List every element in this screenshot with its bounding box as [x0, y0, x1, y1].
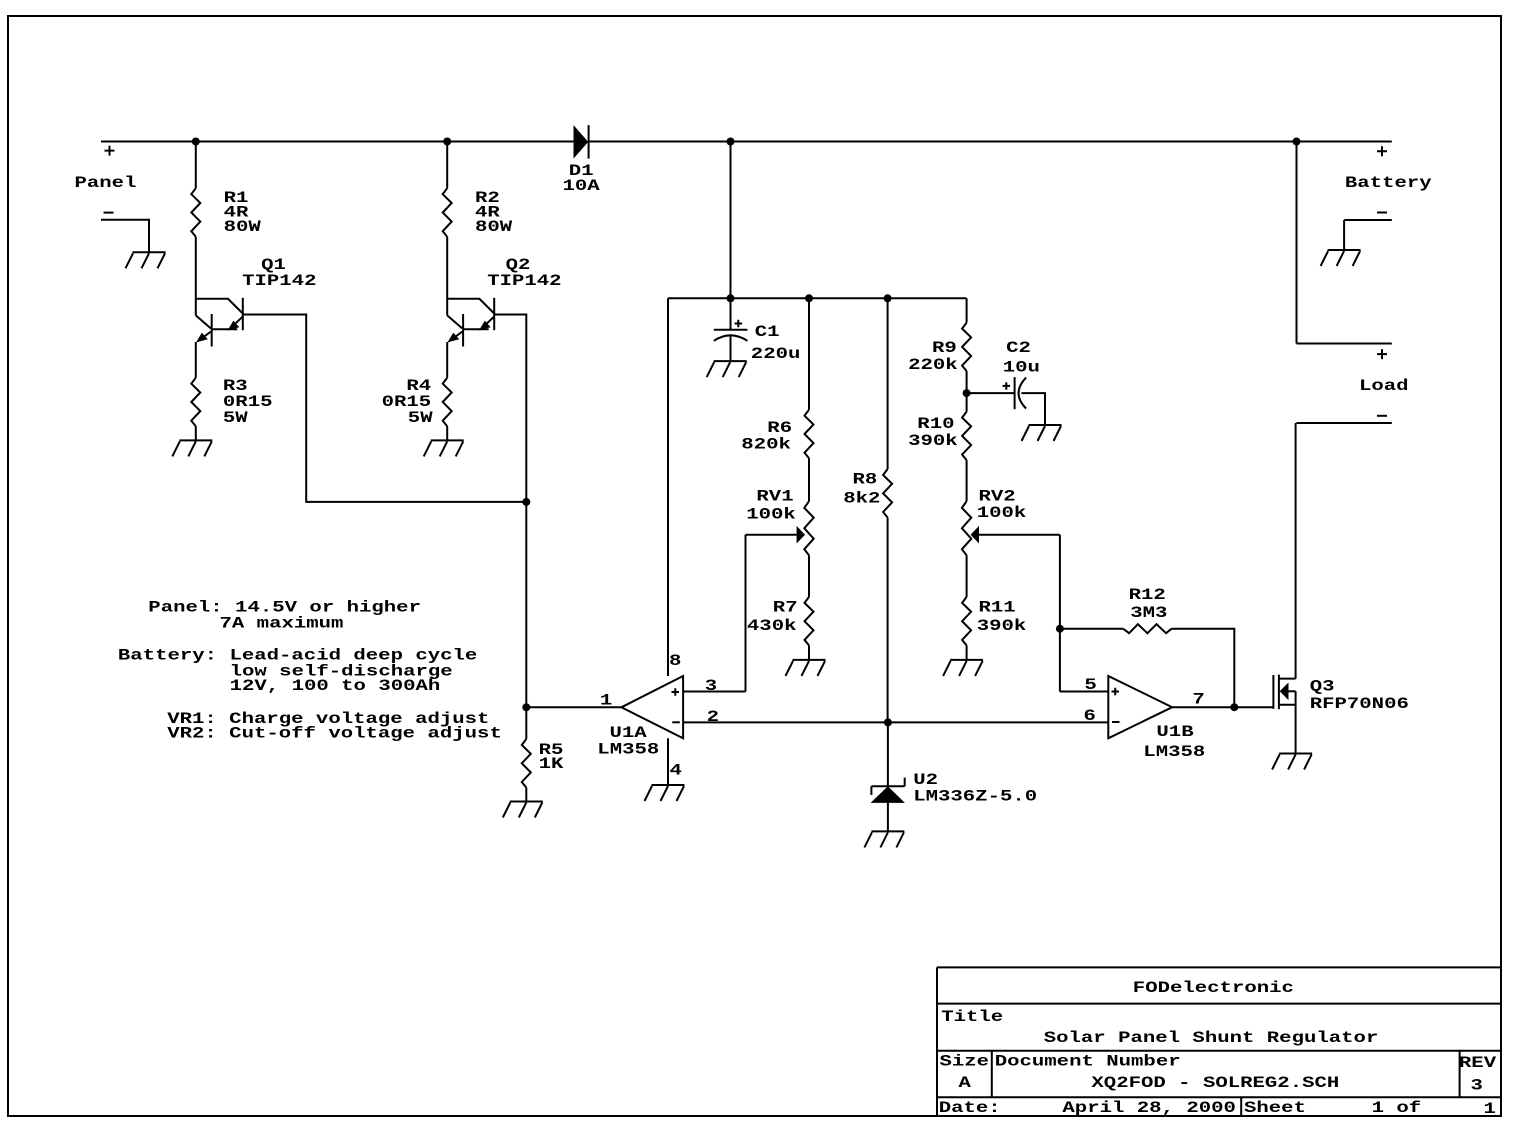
svg-text:100k: 100k: [746, 505, 796, 523]
transistor Q1 TIP142: [196, 237, 317, 347]
wire inverting input line pin2 to pin6: [683, 721, 1108, 723]
svg-text:3M3: 3M3: [1130, 604, 1167, 622]
node junction dot rail/C1: [727, 294, 735, 302]
svg-text:220k: 220k: [908, 356, 958, 374]
svg-text:4: 4: [670, 762, 682, 780]
svg-text:8: 8: [669, 652, 681, 670]
svg-text:LM358: LM358: [597, 741, 659, 759]
node Panel + terminal label: [75, 146, 137, 213]
svg-text:April 28, 2000: April 28, 2000: [1062, 1099, 1236, 1117]
mosfet Q3 RFP70N06: [1273, 675, 1408, 754]
svg-text:R10: R10: [917, 415, 954, 433]
wire U1A output pin 1: [526, 706, 621, 708]
resistor R11 390k: [962, 555, 1026, 660]
resistor R12 3M3: [1060, 586, 1234, 707]
svg-text:7A maximum: 7A maximum: [220, 614, 344, 632]
svg-text:12V, 100 to 300Ah: 12V, 100 to 300Ah: [230, 677, 441, 695]
svg-text:TIP142: TIP142: [242, 272, 316, 290]
ground (R5): [503, 802, 543, 818]
svg-text:80W: 80W: [224, 218, 262, 236]
node junction dot rail/R6: [805, 294, 813, 302]
svg-text:R8: R8: [853, 471, 878, 489]
ground (R7): [786, 660, 826, 676]
svg-text:10u: 10u: [1003, 358, 1040, 376]
ground (C1): [707, 361, 747, 377]
wire C1 node drop: [730, 142, 732, 299]
svg-text:Date:: Date:: [939, 1099, 1001, 1117]
svg-text:Panel: Panel: [75, 174, 137, 192]
svg-text:820k: 820k: [741, 436, 791, 454]
svg-text:430k: 430k: [747, 617, 797, 635]
wire Q1 base: [243, 315, 527, 502]
node junction dot at battery/load branch: [1293, 138, 1301, 146]
op-amp U1A LM358: [597, 676, 683, 759]
ground (R3): [172, 440, 212, 456]
svg-text:1K: 1K: [539, 755, 565, 773]
node junction dot R12/pin7: [1230, 703, 1238, 711]
svg-text:TIP142: TIP142: [487, 272, 561, 290]
wire battery plus drop to load plus: [1297, 142, 1392, 344]
svg-text:390k: 390k: [908, 432, 958, 450]
svg-text:Sheet: Sheet: [1244, 1099, 1306, 1117]
svg-text:1: 1: [1484, 1100, 1496, 1118]
svg-text:2: 2: [707, 708, 719, 726]
svg-text:7: 7: [1192, 691, 1204, 709]
capacitor C2 10u: [967, 339, 1045, 425]
capacitor C1 220u: [714, 298, 801, 363]
svg-text:Size: Size: [940, 1053, 990, 1071]
svg-text:REV: REV: [1459, 1054, 1497, 1072]
wire U1A pin 8 supply: [667, 298, 669, 676]
node junction dot rail/R8: [884, 294, 892, 302]
svg-text:Solar Panel Shunt Regulator: Solar Panel Shunt Regulator: [1044, 1029, 1379, 1047]
svg-text:U2: U2: [913, 771, 938, 789]
wire load minus: [1297, 422, 1392, 424]
zener U2 LM336Z-5.0: [871, 722, 1038, 831]
resistor R1: [191, 142, 262, 237]
svg-text:1 of: 1 of: [1372, 1099, 1422, 1117]
node junction dot pin1/R5: [522, 703, 530, 711]
svg-text:R9: R9: [932, 339, 957, 357]
svg-text:RV1: RV1: [756, 488, 793, 506]
potentiometer RV2 100k: [962, 460, 1060, 555]
wire RV1 wiper to U1A pin 3: [683, 535, 745, 692]
svg-text:390k: 390k: [977, 617, 1027, 635]
node junction dot at C1 branch: [727, 138, 735, 146]
svg-text:8k2: 8k2: [843, 489, 880, 507]
svg-text:100k: 100k: [977, 504, 1027, 522]
potentiometer RV1 100k: [746, 458, 814, 555]
svg-text:U1B: U1B: [1156, 723, 1193, 741]
wire U1A pin 4 to ground: [667, 738, 669, 785]
transistor Q2 TIP142: [447, 237, 561, 347]
svg-text:C2: C2: [1006, 339, 1031, 357]
svg-text:6: 6: [1084, 707, 1096, 725]
svg-text:Document Number: Document Number: [995, 1053, 1181, 1071]
resistor R8 8k2: [843, 298, 892, 722]
wire battery minus to ground: [1344, 220, 1392, 250]
svg-text:3: 3: [1471, 1077, 1483, 1095]
wire RV2 wiper to U1B pin 5: [1060, 535, 1108, 692]
svg-text:5: 5: [1084, 676, 1096, 694]
svg-text:Load: Load: [1359, 377, 1409, 395]
svg-text:U1A: U1A: [610, 724, 648, 742]
node junction dot R9/R10/C2: [963, 389, 971, 397]
resistor R5 1K: [522, 707, 565, 801]
title block frame: [937, 967, 1501, 1116]
svg-text:LM336Z-5.0: LM336Z-5.0: [913, 787, 1037, 805]
svg-text:R11: R11: [979, 599, 1016, 617]
svg-text:5W: 5W: [408, 409, 434, 427]
svg-text:3: 3: [705, 677, 717, 695]
ground (U1A pin4): [645, 785, 685, 801]
node junction dot at R1 branch: [192, 138, 200, 146]
svg-text:Title: Title: [941, 1008, 1003, 1026]
wire mid rail: [668, 297, 967, 299]
svg-text:C1: C1: [755, 323, 780, 341]
svg-text:VR2: Cut-off voltage adjust: VR2: Cut-off voltage adjust: [167, 725, 502, 743]
ground (C2): [1022, 425, 1062, 441]
wire Q2 base: [494, 315, 526, 708]
svg-text:220u: 220u: [751, 345, 801, 363]
node junction dot at R2 branch: [443, 138, 451, 146]
node Battery terminal: [1345, 146, 1432, 212]
resistor R4: [382, 342, 452, 440]
svg-text:R7: R7: [773, 599, 798, 617]
ground (R4): [424, 440, 464, 456]
note text block: [118, 599, 502, 743]
ground (panel): [126, 252, 166, 268]
wire Q3 drain to load minus: [1295, 423, 1297, 679]
ground (R11): [943, 660, 983, 676]
svg-text:Q3: Q3: [1310, 677, 1335, 695]
svg-text:RV2: RV2: [979, 487, 1016, 505]
svg-text:FODelectronic: FODelectronic: [1133, 979, 1294, 997]
diode D1 10A: [563, 125, 601, 195]
svg-text:10A: 10A: [563, 177, 601, 195]
resistor R10 390k: [908, 393, 971, 460]
svg-text:R6: R6: [767, 419, 792, 437]
ground (U2): [864, 831, 904, 847]
ground (battery): [1321, 250, 1361, 266]
svg-text:LM358: LM358: [1143, 743, 1205, 761]
resistor R7 430k: [747, 555, 814, 660]
resistor R9 220k: [908, 298, 971, 393]
node junction dot Q1/Q2 base join: [522, 498, 530, 506]
svg-text:R12: R12: [1129, 586, 1166, 604]
svg-text:80W: 80W: [475, 218, 513, 236]
node Load terminal: [1359, 349, 1409, 416]
op-amp U1B LM358: [1108, 676, 1205, 761]
resistor R3: [191, 342, 272, 440]
wire U1B output pin 7: [1172, 706, 1273, 708]
ground (Q3 source): [1272, 754, 1312, 770]
svg-text:A: A: [959, 1074, 972, 1092]
svg-text:5W: 5W: [223, 409, 249, 427]
wire panel minus to ground: [101, 220, 149, 253]
node junction dot U2 tap: [884, 718, 892, 726]
wire top bus (panel + to battery +): [101, 141, 1392, 143]
node junction dot R12 tap: [1056, 625, 1064, 633]
svg-text:Battery: Battery: [1345, 174, 1432, 192]
svg-text:RFP70N06: RFP70N06: [1310, 695, 1409, 713]
resistor R2: [443, 142, 514, 237]
resistor R6 820k: [741, 298, 813, 458]
svg-text:XQ2FOD - SOLREG2.SCH: XQ2FOD - SOLREG2.SCH: [1091, 1074, 1339, 1092]
